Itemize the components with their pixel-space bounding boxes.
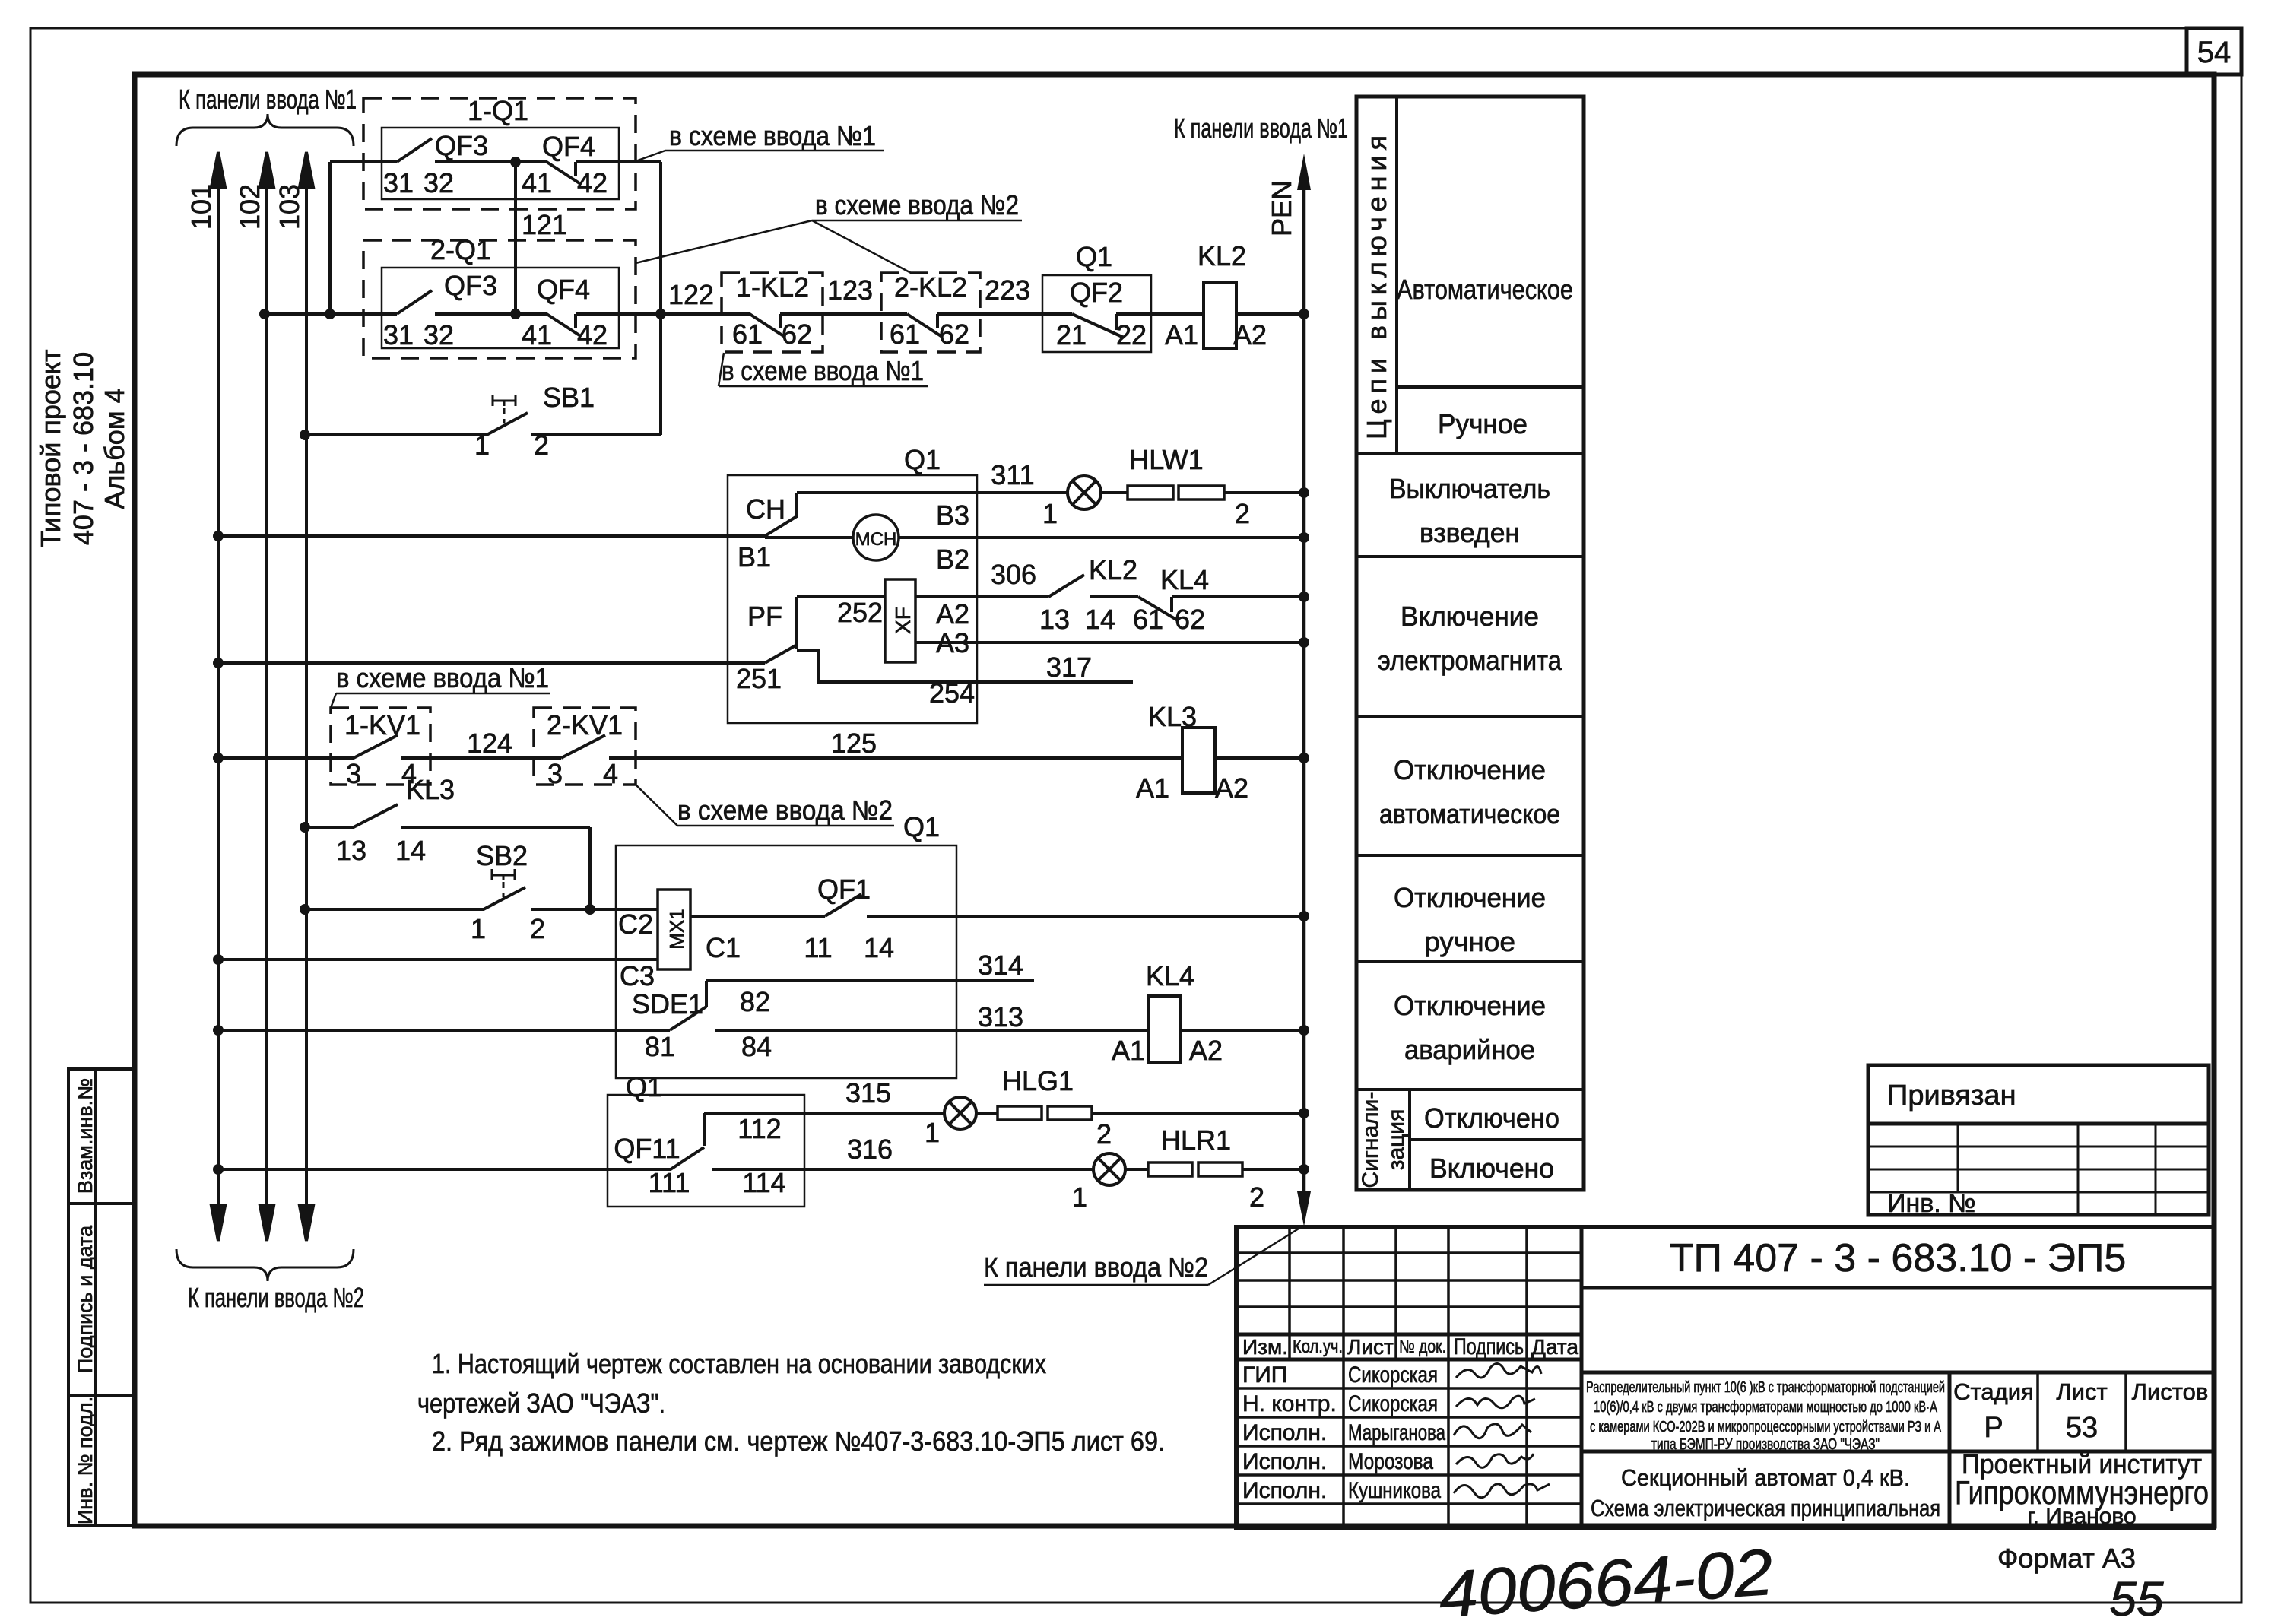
svg-text:Р: Р (1984, 1412, 2003, 1444)
svg-text:54: 54 (2197, 36, 2232, 69)
svg-text:QF2: QF2 (1070, 277, 1123, 308)
svg-text:2: 2 (534, 430, 549, 461)
svg-text:взведен: взведен (1420, 517, 1520, 548)
svg-text:№ док.: № док. (1399, 1337, 1446, 1357)
svg-text:A2: A2 (1215, 772, 1248, 804)
svg-text:42: 42 (577, 319, 608, 350)
svg-text:Формат А3: Формат А3 (1997, 1543, 2136, 1574)
svg-text:электромагнита: электромагнита (1378, 645, 1562, 676)
svg-text:2-KL2: 2-KL2 (894, 271, 967, 303)
svg-text:41: 41 (522, 167, 552, 198)
svg-text:QF11: QF11 (614, 1133, 680, 1164)
svg-text:81: 81 (645, 1031, 675, 1062)
svg-text:KL3: KL3 (1148, 701, 1197, 732)
svg-text:Н. контр.: Н. контр. (1242, 1391, 1337, 1416)
svg-text:2: 2 (1235, 498, 1250, 529)
svg-text:KL2: KL2 (1198, 240, 1246, 271)
svg-text:К панели ввода №1: К панели ввода №1 (179, 84, 357, 115)
svg-text:31: 31 (383, 319, 414, 350)
svg-text:C1: C1 (706, 932, 741, 963)
svg-text:Отключение: Отключение (1394, 990, 1546, 1021)
svg-text:123: 123 (827, 274, 873, 306)
svg-text:Q1: Q1 (903, 811, 940, 842)
svg-text:1: 1 (1042, 498, 1058, 529)
svg-text:A1: A1 (1112, 1035, 1145, 1066)
svg-text:84: 84 (741, 1031, 772, 1062)
svg-text:55: 55 (2109, 1572, 2164, 1624)
svg-text:2-Q1: 2-Q1 (430, 234, 491, 265)
svg-text:Листов: Листов (2132, 1378, 2209, 1405)
svg-text:К панели ввода №2: К панели ввода №2 (984, 1251, 1208, 1283)
svg-text:Инв. № подл.: Инв. № подл. (74, 1397, 97, 1524)
svg-text:1-KV1: 1-KV1 (344, 709, 420, 741)
svg-text:103: 103 (274, 184, 305, 230)
svg-text:Дата: Дата (1531, 1335, 1578, 1359)
svg-text:зация: зация (1384, 1109, 1409, 1171)
svg-text:102: 102 (234, 184, 265, 230)
svg-text:Автоматическое: Автоматическое (1397, 274, 1573, 305)
svg-text:317: 317 (1046, 652, 1092, 683)
svg-text:1: 1 (471, 913, 486, 944)
svg-text:Морозова: Морозова (1348, 1449, 1433, 1474)
svg-text:32: 32 (424, 167, 454, 198)
svg-text:Q1: Q1 (626, 1071, 662, 1102)
svg-text:в схеме ввода №2: в схеме ввода №2 (815, 189, 1019, 220)
svg-text:Отключение: Отключение (1394, 882, 1546, 913)
svg-text:101: 101 (186, 184, 217, 230)
svg-text:31: 31 (383, 167, 414, 198)
svg-text:Выключатель: Выключатель (1389, 473, 1550, 504)
svg-text:SDE1: SDE1 (632, 988, 703, 1020)
svg-text:2. Ряд зажимов панели см. чер: 2. Ряд зажимов панели см. чертеж №407-3-… (432, 1426, 1165, 1457)
svg-text:Взам.инв.№: Взам.инв.№ (74, 1078, 97, 1194)
svg-text:313: 313 (978, 1001, 1023, 1032)
svg-text:Схема электрическая принципиал: Схема электрическая принципиальная (1591, 1495, 1940, 1521)
svg-text:62: 62 (939, 319, 969, 350)
svg-text:Сигнали-: Сигнали- (1358, 1092, 1383, 1188)
svg-text:чертежей ЗАО "ЧЭАЗ".: чертежей ЗАО "ЧЭАЗ". (417, 1388, 665, 1419)
svg-text:Отключено: Отключено (1424, 1102, 1559, 1134)
svg-text:QF3: QF3 (444, 270, 497, 301)
svg-text:QF4: QF4 (537, 274, 590, 305)
svg-text:МСН: МСН (855, 529, 897, 550)
svg-text:2: 2 (1249, 1182, 1264, 1213)
svg-text:407 - 3 - 683.10: 407 - 3 - 683.10 (68, 352, 99, 545)
svg-text:KL3: KL3 (406, 774, 455, 805)
svg-text:2: 2 (1096, 1118, 1112, 1150)
svg-text:53: 53 (2066, 1412, 2098, 1444)
svg-text:SB1: SB1 (543, 382, 595, 413)
svg-text:3: 3 (346, 758, 361, 789)
svg-text:в схеме ввода №1: в схеме ввода №1 (722, 355, 924, 386)
svg-text:1: 1 (1072, 1182, 1087, 1213)
svg-text:11: 11 (804, 932, 832, 963)
svg-text:B2: B2 (936, 544, 969, 575)
svg-text:Сикорская: Сикорская (1348, 1362, 1438, 1388)
svg-text:QF3: QF3 (435, 130, 488, 161)
svg-text:ГИП: ГИП (1242, 1362, 1287, 1388)
svg-text:KL4: KL4 (1160, 564, 1209, 595)
svg-text:Включено: Включено (1429, 1153, 1554, 1184)
svg-text:Сикорская: Сикорская (1348, 1391, 1438, 1416)
svg-text:B3: B3 (936, 500, 969, 531)
svg-text:Альбом 4: Альбом 4 (99, 388, 130, 509)
svg-text:с камерами КСО-202В и микропро: с камерами КСО-202В и микропроцессорными… (1590, 1419, 1941, 1435)
svg-text:122: 122 (668, 279, 714, 310)
svg-text:125: 125 (831, 728, 877, 759)
svg-text:Исполн.: Исполн. (1242, 1449, 1327, 1474)
svg-text:3: 3 (547, 758, 563, 789)
svg-text:315: 315 (845, 1077, 891, 1109)
svg-text:в схеме ввода №2: в схеме ввода №2 (677, 795, 893, 826)
svg-text:61: 61 (890, 319, 920, 350)
svg-text:Изм.: Изм. (1242, 1335, 1288, 1359)
svg-text:251: 251 (736, 663, 782, 694)
svg-text:A2: A2 (1189, 1035, 1223, 1066)
svg-text:62: 62 (1175, 604, 1205, 635)
svg-text:13: 13 (336, 835, 366, 866)
svg-text:Отключение: Отключение (1394, 754, 1546, 785)
svg-text:типа БЭМП-РУ производства ЗАО: типа БЭМП-РУ производства ЗАО "ЧЭАЗ" (1651, 1436, 1880, 1453)
svg-text:14: 14 (395, 835, 426, 866)
svg-text:1: 1 (925, 1117, 940, 1148)
svg-text:Марыганова: Марыганова (1348, 1420, 1445, 1445)
svg-text:Лист: Лист (1347, 1335, 1394, 1359)
svg-text:Исполн.: Исполн. (1242, 1420, 1327, 1445)
svg-text:Включение: Включение (1401, 601, 1539, 632)
svg-text:62: 62 (782, 319, 812, 350)
svg-text:XF: XF (891, 607, 915, 634)
svg-text:Распределительный пункт 10(6 ): Распределительный пункт 10(6 )кВ с транс… (1586, 1379, 1945, 1396)
svg-text:Привязан: Привязан (1887, 1080, 2016, 1112)
svg-text:A2: A2 (1233, 319, 1267, 350)
svg-text:Кол.уч.: Кол.уч. (1293, 1337, 1343, 1357)
svg-text:Q1: Q1 (1076, 241, 1112, 272)
svg-text:61: 61 (1133, 604, 1163, 635)
svg-text:PF: PF (747, 601, 782, 632)
svg-text:Цепи выключения: Цепи выключения (1361, 135, 1392, 439)
svg-text:314: 314 (978, 950, 1023, 981)
svg-text:14: 14 (864, 932, 894, 963)
svg-text:аварийное: аварийное (1404, 1034, 1535, 1065)
svg-text:252: 252 (837, 597, 883, 628)
svg-text:ручное: ручное (1424, 926, 1515, 957)
svg-text:82: 82 (740, 986, 770, 1017)
svg-text:10(6)/0,4 кВ с двумя трансформ: 10(6)/0,4 кВ с двумя трансформаторами мо… (1594, 1399, 1937, 1416)
svg-text:PEN: PEN (1266, 180, 1297, 236)
svg-text:HLR1: HLR1 (1161, 1124, 1231, 1156)
svg-text:1: 1 (474, 430, 490, 461)
svg-text:311: 311 (991, 459, 1034, 490)
svg-text:Ручное: Ручное (1438, 408, 1528, 439)
svg-text:2: 2 (530, 913, 545, 944)
svg-text:Q1: Q1 (904, 444, 941, 475)
svg-text:21: 21 (1056, 319, 1087, 350)
svg-text:Инв. №: Инв. № (1887, 1189, 1976, 1218)
svg-text:A1: A1 (1136, 772, 1169, 804)
svg-text:г. Иваново: г. Иваново (2027, 1504, 2136, 1529)
svg-text:1-KL2: 1-KL2 (736, 271, 809, 303)
svg-text:Исполн.: Исполн. (1242, 1478, 1327, 1503)
svg-text:254: 254 (929, 677, 975, 709)
svg-text:121: 121 (522, 209, 567, 240)
svg-text:111: 111 (649, 1167, 690, 1198)
svg-text:32: 32 (424, 319, 454, 350)
svg-text:42: 42 (577, 167, 608, 198)
svg-text:1-Q1: 1-Q1 (468, 95, 528, 126)
svg-text:KL2: KL2 (1089, 554, 1137, 585)
svg-text:124: 124 (467, 728, 512, 759)
svg-text:61: 61 (732, 319, 763, 350)
svg-text:автоматическое: автоматическое (1379, 798, 1560, 829)
svg-text:316: 316 (847, 1134, 893, 1165)
svg-text:B1: B1 (738, 541, 771, 573)
svg-text:Секционный автомат 0,4 кВ.: Секционный автомат 0,4 кВ. (1621, 1464, 1910, 1491)
svg-text:МХ1: МХ1 (665, 909, 688, 949)
svg-text:13: 13 (1039, 604, 1070, 635)
svg-text:C3: C3 (620, 960, 655, 991)
svg-text:HLG1: HLG1 (1002, 1065, 1074, 1096)
svg-text:К панели ввода №2: К панели ввода №2 (188, 1282, 364, 1313)
svg-text:2-KV1: 2-KV1 (547, 709, 623, 741)
svg-text:QF1: QF1 (817, 874, 871, 905)
svg-text:Стадия: Стадия (1953, 1378, 2034, 1405)
svg-text:114: 114 (742, 1167, 785, 1198)
svg-text:Кушникова: Кушникова (1348, 1478, 1441, 1503)
svg-text:Подпись: Подпись (1454, 1334, 1524, 1359)
svg-text:C2: C2 (618, 909, 653, 940)
svg-text:A3: A3 (936, 627, 969, 658)
svg-text:QF4: QF4 (542, 131, 595, 162)
svg-text:KL4: KL4 (1146, 960, 1194, 991)
svg-text:14: 14 (1085, 604, 1115, 635)
svg-text:К панели ввода №1: К панели ввода №1 (1174, 113, 1348, 144)
svg-text:Лист: Лист (2056, 1378, 2107, 1405)
svg-text:A1: A1 (1165, 319, 1198, 350)
svg-text:Подпись и дата: Подпись и дата (74, 1225, 97, 1373)
svg-text:в схеме ввода №1: в схеме ввода №1 (669, 120, 876, 151)
svg-text:22: 22 (1116, 319, 1147, 350)
svg-text:223: 223 (985, 274, 1030, 306)
svg-text:41: 41 (522, 319, 552, 350)
svg-text:Типовой проект: Типовой проект (35, 349, 66, 547)
svg-text:в схеме ввода №1: в схеме ввода №1 (336, 662, 549, 693)
svg-text:A2: A2 (936, 598, 969, 630)
svg-text:HLW1: HLW1 (1129, 444, 1203, 475)
svg-text:112: 112 (738, 1113, 781, 1144)
svg-text:ТП 407 - 3 - 683.10 - ЭП5: ТП 407 - 3 - 683.10 - ЭП5 (1670, 1236, 2127, 1280)
svg-text:CH: CH (746, 493, 785, 525)
svg-text:306: 306 (991, 559, 1036, 590)
svg-text:1. Настоящий чертеж составлен: 1. Настоящий чертеж составлен на основан… (432, 1348, 1046, 1379)
svg-text:4: 4 (603, 758, 618, 789)
svg-text:SB2: SB2 (476, 840, 528, 871)
